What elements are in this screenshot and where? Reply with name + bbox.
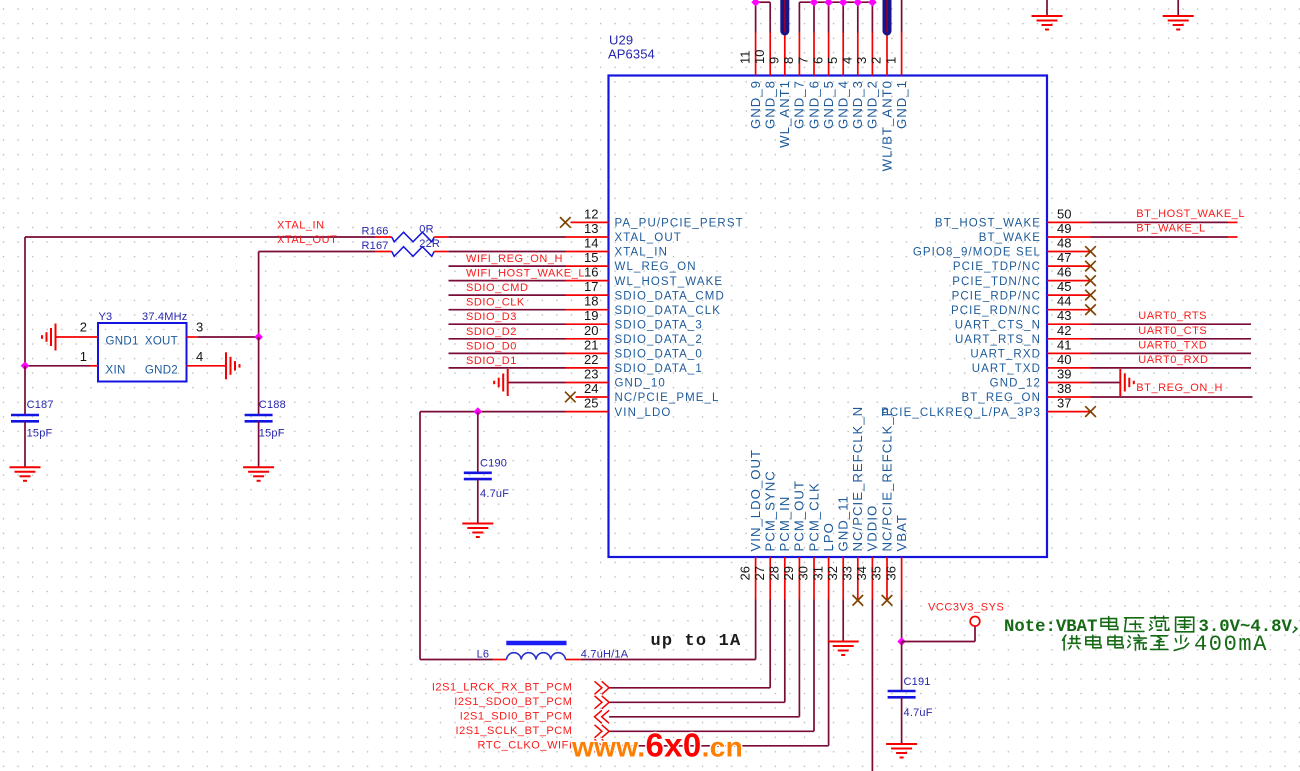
svg-text:XTAL_OUT: XTAL_OUT: [277, 234, 337, 246]
svg-text:GPIO8_9/MODE SEL: GPIO8_9/MODE SEL: [913, 247, 1041, 259]
svg-text:PCIE_TDN/NC: PCIE_TDN/NC: [952, 276, 1041, 288]
svg-text:16: 16: [584, 265, 598, 280]
svg-text:GND_9: GND_9: [748, 80, 763, 129]
svg-text:XTAL_IN: XTAL_IN: [615, 247, 669, 259]
svg-text:www.6x0.cn: www.6x0.cn: [571, 727, 743, 764]
svg-text:R167: R167: [362, 240, 389, 252]
svg-text:UART_TXD: UART_TXD: [972, 363, 1041, 375]
svg-text:4: 4: [840, 57, 855, 64]
svg-text:26: 26: [737, 566, 752, 580]
svg-text:36: 36: [883, 566, 898, 580]
svg-text:19: 19: [584, 308, 598, 323]
svg-text:NC/PCIE_PME_L: NC/PCIE_PME_L: [615, 392, 720, 404]
svg-text:C191: C191: [904, 676, 931, 688]
svg-text:SDIO_CLK: SDIO_CLK: [466, 297, 525, 309]
svg-text:up to 1A: up to 1A: [651, 632, 742, 651]
svg-text:GND1: GND1: [106, 335, 139, 347]
svg-text:17: 17: [584, 279, 598, 294]
svg-text:20: 20: [584, 323, 598, 338]
svg-text:SDIO_DATA_1: SDIO_DATA_1: [615, 363, 703, 375]
svg-text:30: 30: [796, 566, 811, 580]
svg-text:PCIE_CLKREQ_L/PA_3P3: PCIE_CLKREQ_L/PA_3P3: [881, 407, 1041, 419]
svg-text:4.7uH/1A: 4.7uH/1A: [581, 649, 629, 661]
svg-text:GND_3: GND_3: [850, 80, 865, 129]
svg-text:SDIO_D0: SDIO_D0: [466, 340, 517, 352]
svg-text:PCM_CLK: PCM_CLK: [806, 482, 821, 551]
svg-text:R166: R166: [362, 226, 389, 238]
svg-text:PCIE_TDP/NC: PCIE_TDP/NC: [953, 261, 1041, 273]
svg-text:GND_5: GND_5: [821, 80, 836, 129]
svg-text:I2S1_SCLK_BT_PCM: I2S1_SCLK_BT_PCM: [455, 725, 572, 737]
svg-text:SDIO_D2: SDIO_D2: [466, 326, 517, 338]
svg-text:BT_WAKE: BT_WAKE: [979, 232, 1041, 244]
svg-text:UART_RXD: UART_RXD: [970, 349, 1041, 361]
svg-text:22: 22: [584, 352, 598, 367]
svg-text:GND_2: GND_2: [865, 80, 880, 129]
svg-text:22R: 22R: [419, 238, 440, 250]
svg-text:10: 10: [752, 50, 767, 64]
svg-text:11: 11: [737, 51, 752, 65]
svg-text:VBAT: VBAT: [894, 514, 909, 551]
svg-text:35: 35: [869, 566, 884, 580]
svg-text:UART0_CTS: UART0_CTS: [1138, 325, 1207, 337]
svg-text:21: 21: [584, 337, 598, 352]
svg-text:SDIO_DATA_3: SDIO_DATA_3: [615, 319, 703, 331]
svg-text:I2S1_LRCK_RX_BT_PCM: I2S1_LRCK_RX_BT_PCM: [432, 681, 573, 693]
svg-text:BT_HOST_WAKE_L: BT_HOST_WAKE_L: [1136, 208, 1245, 220]
svg-text:BT_REG_ON: BT_REG_ON: [961, 392, 1041, 404]
svg-text:PCIE_RDN/NC: PCIE_RDN/NC: [951, 305, 1041, 317]
svg-text:2: 2: [869, 57, 884, 64]
svg-text:C190: C190: [480, 458, 507, 470]
svg-text:46: 46: [1057, 265, 1071, 280]
svg-text:NC/PCIE_REFCLK_P: NC/PCIE_REFCLK_P: [879, 407, 894, 552]
svg-text:U29: U29: [609, 32, 633, 47]
svg-text:C188: C188: [259, 399, 286, 411]
svg-text:VIN_LDO: VIN_LDO: [615, 407, 672, 419]
svg-text:3: 3: [854, 57, 869, 64]
svg-text:37.4MHz: 37.4MHz: [142, 311, 187, 323]
svg-text:9: 9: [767, 57, 782, 64]
svg-text:AP6354: AP6354: [608, 46, 655, 61]
svg-text:C187: C187: [27, 399, 54, 411]
svg-text:WIFI_HOST_WAKE_L: WIFI_HOST_WAKE_L: [466, 268, 585, 280]
svg-text:WIFI_REG_ON_H: WIFI_REG_ON_H: [466, 253, 563, 265]
svg-text:I2S1_SDO0_BT_PCM: I2S1_SDO0_BT_PCM: [454, 696, 572, 708]
svg-text:1: 1: [883, 57, 898, 64]
svg-text:45: 45: [1057, 279, 1071, 294]
svg-text:GND_7: GND_7: [792, 80, 807, 129]
svg-text:40: 40: [1057, 352, 1071, 367]
svg-text:WL_REG_ON: WL_REG_ON: [615, 261, 697, 273]
svg-text:PCM_SYNC: PCM_SYNC: [763, 470, 778, 551]
svg-text:8: 8: [781, 57, 796, 64]
svg-text:PA_PU/PCIE_PERST: PA_PU/PCIE_PERST: [615, 218, 744, 230]
svg-text:43: 43: [1057, 308, 1071, 323]
svg-text:PCM_OUT: PCM_OUT: [792, 480, 807, 551]
svg-text:2: 2: [80, 320, 87, 335]
svg-text:44: 44: [1057, 294, 1071, 309]
svg-text:33: 33: [840, 566, 855, 580]
svg-text:50: 50: [1057, 206, 1071, 221]
svg-text:23: 23: [584, 367, 598, 382]
svg-text:LPO: LPO: [821, 522, 836, 551]
svg-text:14: 14: [584, 236, 598, 251]
svg-text:37: 37: [1057, 396, 1071, 411]
svg-text:PCIE_RDP/NC: PCIE_RDP/NC: [952, 290, 1041, 302]
svg-text:42: 42: [1057, 323, 1071, 338]
svg-text:XOUT: XOUT: [145, 335, 178, 347]
svg-text:3: 3: [196, 320, 203, 335]
svg-text:SDIO_DATA_0: SDIO_DATA_0: [615, 349, 703, 361]
svg-text:WL_HOST_WAKE: WL_HOST_WAKE: [615, 276, 724, 288]
svg-text:PCM_IN: PCM_IN: [777, 496, 792, 552]
svg-text:32: 32: [825, 566, 840, 580]
svg-text:6: 6: [810, 57, 825, 64]
svg-text:4: 4: [196, 349, 203, 364]
svg-text:15pF: 15pF: [27, 428, 53, 440]
svg-text:GND2: GND2: [145, 364, 178, 376]
svg-text:GND_12: GND_12: [990, 378, 1041, 390]
svg-text:12: 12: [584, 206, 598, 221]
svg-text:38: 38: [1057, 381, 1071, 396]
svg-text:4.7uF: 4.7uF: [904, 707, 933, 719]
svg-text:GND_11: GND_11: [836, 495, 851, 551]
svg-text:NC/PCIE_REFCLK_N: NC/PCIE_REFCLK_N: [850, 406, 865, 552]
svg-text:15: 15: [584, 250, 598, 265]
svg-text:GND_6: GND_6: [806, 80, 821, 129]
svg-text:UART_RTS_N: UART_RTS_N: [955, 334, 1041, 346]
svg-text:BT_REG_ON_H: BT_REG_ON_H: [1136, 382, 1223, 394]
svg-text:WL_ANT1: WL_ANT1: [777, 80, 792, 148]
svg-text:Y3: Y3: [99, 311, 113, 323]
svg-text:UART0_TXD: UART0_TXD: [1138, 339, 1207, 351]
svg-text:24: 24: [584, 381, 598, 396]
svg-text:27: 27: [752, 566, 767, 580]
svg-text:BT_WAKE_L: BT_WAKE_L: [1136, 223, 1205, 235]
svg-text:SDIO_DATA_CMD: SDIO_DATA_CMD: [615, 290, 725, 302]
svg-text:SDIO_D3: SDIO_D3: [466, 311, 517, 323]
svg-text:31: 31: [810, 566, 825, 580]
svg-text:UART0_RTS: UART0_RTS: [1138, 310, 1207, 322]
svg-text:41: 41: [1057, 337, 1071, 352]
svg-text:SDIO_CMD: SDIO_CMD: [466, 282, 528, 294]
svg-text:SDIO_D1: SDIO_D1: [466, 355, 517, 367]
svg-text:GND_4: GND_4: [836, 80, 851, 129]
svg-text:29: 29: [781, 566, 796, 580]
svg-text:GND_10: GND_10: [615, 378, 666, 390]
svg-text:UART_CTS_N: UART_CTS_N: [955, 319, 1041, 331]
svg-text:UART0_RXD: UART0_RXD: [1138, 354, 1208, 366]
svg-text:34: 34: [854, 566, 869, 580]
svg-text:15pF: 15pF: [259, 428, 285, 440]
svg-text:GND_8: GND_8: [763, 80, 778, 129]
svg-text:BT_HOST_WAKE: BT_HOST_WAKE: [935, 218, 1041, 230]
svg-text:13: 13: [584, 221, 598, 236]
svg-text:48: 48: [1057, 236, 1071, 251]
svg-text:L6: L6: [477, 649, 490, 661]
svg-text:XTAL_IN: XTAL_IN: [277, 220, 325, 232]
svg-text:XIN: XIN: [106, 364, 126, 376]
svg-text:VIN_LDO_OUT: VIN_LDO_OUT: [748, 449, 763, 552]
svg-text:GND_1: GND_1: [894, 80, 909, 129]
svg-text:1: 1: [80, 349, 87, 364]
svg-text:VCC3V3_SYS: VCC3V3_SYS: [928, 602, 1004, 614]
svg-text:XTAL_OUT: XTAL_OUT: [615, 232, 682, 244]
svg-text:39: 39: [1057, 367, 1071, 382]
svg-text:4.7uF: 4.7uF: [480, 488, 509, 500]
svg-text:28: 28: [767, 566, 782, 580]
svg-text:400mA: 400mA: [1194, 632, 1268, 657]
svg-text:I2S1_SDI0_BT_PCM: I2S1_SDI0_BT_PCM: [460, 710, 573, 722]
svg-text:7: 7: [796, 57, 811, 64]
svg-text:SDIO_DATA_2: SDIO_DATA_2: [615, 334, 703, 346]
svg-text:49: 49: [1057, 221, 1071, 236]
svg-text:18: 18: [584, 294, 598, 309]
svg-text:25: 25: [584, 396, 598, 411]
svg-text:SDIO_DATA_CLK: SDIO_DATA_CLK: [615, 305, 722, 317]
svg-text:47: 47: [1057, 250, 1071, 265]
svg-text:VDDIO: VDDIO: [865, 505, 880, 552]
svg-text:5: 5: [825, 57, 840, 64]
svg-text:WL/BT_ANT0: WL/BT_ANT0: [879, 80, 894, 171]
svg-text:Note:VBAT: Note:VBAT: [1004, 618, 1097, 637]
svg-text:RTC_CLKO_WIFI: RTC_CLKO_WIFI: [478, 739, 573, 751]
svg-text:0R: 0R: [419, 224, 433, 236]
